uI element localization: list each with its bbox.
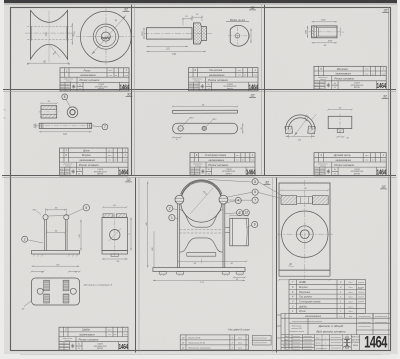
- svg-text:во: во: [244, 75, 246, 77]
- balloons 3 and 12: [237, 210, 243, 216]
- side view right dim: [130, 218, 132, 251]
- svg-text:обозначение: обозначение: [192, 78, 202, 80]
- svg-text:Ролик штанги: Ролик штанги: [79, 163, 99, 167]
- svg-text:н.др: н.др: [254, 74, 257, 77]
- leaders from assembly balloons to top view: [258, 182, 283, 197]
- svg-text:1464: 1464: [119, 168, 129, 176]
- U-bolt diagonal dim: [294, 116, 310, 137]
- svg-text:Ролик штанги: Ролик штанги: [208, 78, 228, 82]
- roller dia dimension (right of side view): [71, 23, 73, 45]
- svg-text:обозначение: обозначение: [318, 77, 328, 79]
- balloon 9: [252, 221, 258, 227]
- svg-text:н.др: н.др: [251, 159, 254, 162]
- svg-text:Ролик штанги: Ролик штанги: [334, 77, 354, 81]
- svg-text:Зав.ч: Зав.ч: [284, 336, 289, 338]
- svg-text:ВЕРФИ: ВЕРФИ: [227, 87, 234, 90]
- side view bottom dim: [102, 258, 128, 260]
- svg-text:9: 9: [254, 223, 256, 227]
- svg-text:см.ч: см.ч: [365, 155, 369, 157]
- top view plate: [32, 278, 80, 305]
- balloon 6: [252, 189, 258, 195]
- side view hole with axis: [110, 230, 120, 240]
- svg-text:Вид ролика штанги: Вид ролика штанги: [316, 329, 345, 333]
- svg-text:Втулка: Втулка: [299, 286, 308, 289]
- balloon 5 with leaders: [83, 205, 89, 211]
- svg-text:Сибирского завода: Сибирского завода: [289, 330, 304, 333]
- svg-text:См.л: См.л: [238, 337, 242, 339]
- svg-text:Ø10: Ø10: [189, 117, 195, 119]
- svg-text:32: 32: [251, 6, 255, 10]
- drum at right: [230, 218, 249, 246]
- right pin: [64, 215, 69, 220]
- centerlines front view: [76, 36, 136, 38]
- svg-text:наименование: наименование: [80, 75, 96, 77]
- bushing right small dim: [340, 28, 342, 36]
- balloon 4: [235, 197, 241, 203]
- svg-text:Шайба: Шайба: [299, 305, 307, 308]
- svg-text:м.ч: м.ч: [238, 75, 241, 77]
- svg-text:модель 205: модель 205: [291, 327, 302, 330]
- svg-text:ВЕРФИ: ВЕРФИ: [226, 172, 233, 175]
- plate holes: [37, 288, 43, 294]
- balloon 7: [102, 124, 108, 130]
- svg-text:7: 7: [104, 125, 106, 129]
- bottom scan strip: [0, 354, 400, 359]
- side view pin caps: [103, 214, 113, 218]
- svg-text:32: 32: [251, 94, 255, 98]
- svg-text:Детали и общий: Детали и общий: [318, 324, 344, 328]
- svg-text:наименование: наименование: [336, 74, 352, 76]
- main title block: description block: [307, 318, 309, 334]
- svg-text:Масленка: Масленка: [337, 68, 349, 71]
- bushing bottom dim: [312, 42, 337, 44]
- roller side view (spool profile): [31, 10, 68, 59]
- top view U-bolt clamp blocks (hatched): [281, 196, 297, 205]
- front view: base bar: [32, 251, 80, 255]
- pulley waist edges: [180, 210, 223, 228]
- svg-text:5: 5: [325, 337, 326, 339]
- rod (шток): [39, 123, 91, 128]
- svg-text:1464: 1464: [119, 343, 129, 351]
- overall width dim: [153, 279, 245, 281]
- vertical line before 1464 cell: [359, 335, 361, 351]
- U-bolt span dim: [286, 135, 315, 137]
- balloon 7: [252, 197, 258, 203]
- axle shaft body: [147, 28, 193, 39]
- svg-text:обозначение: обозначение: [63, 338, 73, 340]
- top view bottom dim 90: [279, 279, 330, 281]
- main title block: signature rows: [281, 337, 315, 339]
- svg-text:Ø12: Ø12: [212, 119, 218, 121]
- top dim 97: [281, 189, 328, 191]
- svg-text:наименование: наименование: [209, 160, 225, 162]
- balloon 2 (left): [167, 205, 173, 211]
- left eye nut: [175, 195, 184, 204]
- svg-text:Т.контр: Т.контр: [283, 342, 289, 344]
- side view body: [102, 218, 128, 251]
- right small dim: [234, 276, 245, 278]
- svg-text:Ролик штанги: Ролик штанги: [80, 78, 100, 82]
- left post: [177, 204, 179, 268]
- top view base plate: [279, 183, 330, 270]
- title block panel 7 (Шайба): [59, 327, 128, 350]
- svg-text:обозначение: обозначение: [63, 163, 73, 165]
- svg-text:32: 32: [382, 185, 386, 189]
- svg-text:См.л: См.л: [238, 342, 242, 344]
- pulley circle (top flange): [181, 181, 222, 222]
- title block panel 2 (Ось ролика): [189, 68, 259, 91]
- hole leader: [182, 119, 189, 127]
- bottom-middle parts table: [180, 335, 248, 350]
- svg-text:Ø48: Ø48: [305, 29, 308, 35]
- svg-text:Ø24: Ø24: [248, 33, 251, 39]
- svg-text:Шток: Шток: [83, 150, 90, 153]
- svg-text:(2шт): (2шт): [357, 288, 363, 290]
- axle left end dim: [143, 28, 145, 39]
- title block panel 4 (Шток/Втулка): [60, 148, 129, 176]
- drum top dim: [230, 214, 248, 216]
- svg-text:МИН-СССР: МИН-СССР: [352, 337, 360, 339]
- plate hole: [178, 126, 183, 131]
- svg-text:2: 2: [169, 206, 171, 210]
- svg-text:Н.контр: Н.контр: [283, 346, 289, 348]
- side view top dim: [103, 206, 127, 208]
- svg-text:ВЕРФИ: ВЕРФИ: [97, 173, 104, 176]
- svg-text:ВЕРФИ: ВЕРФИ: [354, 172, 361, 175]
- svg-text:Стопорная планка: Стопорная планка: [299, 301, 321, 304]
- plate top dim: [32, 265, 80, 267]
- svg-text:наименование: наименование: [79, 334, 95, 336]
- axle end view (D-shape): [230, 25, 249, 46]
- bushing left dim: [307, 26, 309, 38]
- svg-text:Видок по АА: Видок по АА: [230, 18, 245, 22]
- svg-text:1464: 1464: [246, 168, 256, 176]
- svg-text:Ролик штанги: Ролик штанги: [334, 163, 354, 167]
- balloon 1 (left): [169, 215, 175, 221]
- vertical divider bottom row col1/col2: [135, 178, 137, 353]
- small left leader: [37, 211, 42, 215]
- svg-text:Ось ролика: Ось ролика: [209, 69, 222, 72]
- svg-text:см.ч: см.ч: [108, 330, 112, 332]
- svg-text:5: 5: [85, 206, 87, 210]
- svg-text:м.ч: м.ч: [109, 75, 112, 77]
- svg-text:Ø30: Ø30: [327, 40, 333, 42]
- axle bottom dims: [147, 45, 189, 47]
- svg-text:6: 6: [254, 190, 256, 194]
- sleeve end view: [67, 107, 78, 118]
- rod bottom dim: [39, 131, 91, 133]
- svg-text:1464: 1464: [120, 84, 130, 92]
- svg-text:н.др: н.др: [124, 159, 127, 162]
- svg-text:Лист: Лист: [316, 337, 320, 339]
- svg-text:во: во: [372, 160, 374, 162]
- svg-text:м.ч: м.ч: [108, 160, 111, 162]
- svg-text:обозначение: обозначение: [193, 163, 203, 165]
- svg-text:Ролик: Ролик: [299, 310, 307, 313]
- title block panel 6 (Дуговая часть): [314, 153, 386, 176]
- svg-text:1464: 1464: [377, 82, 387, 90]
- svg-text:см.ч: см.ч: [365, 69, 369, 71]
- balloon 8 (right column): [252, 179, 258, 185]
- balloon 8: [62, 94, 68, 100]
- left pin: [43, 215, 48, 220]
- svg-text:во: во: [114, 334, 116, 336]
- top view centerlines: [304, 180, 306, 279]
- mid dim between pins: [46, 232, 65, 234]
- svg-text:C: C: [27, 63, 29, 66]
- top view pulley circle: [282, 211, 328, 257]
- vertical divider bottom row col2/col3: [272, 178, 274, 353]
- title block panel 5 (Стопорная планка): [190, 153, 255, 176]
- pins span dim: [46, 209, 67, 211]
- R60 radius label: [50, 45, 61, 58]
- plate slot mark: [202, 126, 206, 130]
- svg-text:На судне 6 штук: На судне 6 штук: [228, 327, 250, 331]
- svg-text:12: 12: [244, 211, 248, 215]
- lower span dims: [178, 260, 224, 262]
- threaded pin sections (hatched bands): [44, 280, 50, 291]
- svg-text:ВЕРФИ: ВЕРФИ: [97, 347, 104, 350]
- svg-text:наименование: наименование: [209, 75, 225, 77]
- svg-text:8: 8: [254, 180, 256, 184]
- svg-text:м.ч: м.ч: [108, 334, 111, 336]
- right eye nut: [219, 195, 228, 204]
- svg-text:32: 32: [265, 181, 269, 185]
- title block panel 1 (Ролик): [60, 68, 129, 91]
- svg-text:4: 4: [237, 199, 239, 203]
- svg-text:Для формы и структуры Б: Для формы и структуры Б: [83, 284, 113, 287]
- aux cells left of emblem: [330, 339, 343, 341]
- svg-text:1: 1: [171, 216, 173, 220]
- pulley diagonal label: [190, 188, 213, 214]
- svg-text:32: 32: [124, 8, 128, 12]
- svg-text:в.л: в.л: [339, 316, 341, 318]
- svg-text:см.ч: см.ч: [236, 155, 240, 157]
- drum connector: [225, 227, 230, 229]
- svg-text:7: 7: [254, 198, 256, 202]
- left margin cells of title block: [276, 314, 281, 316]
- svg-text:кол: кол: [349, 316, 352, 318]
- base feet: [159, 272, 166, 275]
- svg-text:Винты 8×8: Винты 8×8: [189, 337, 201, 340]
- U-bolt nuts: [285, 126, 293, 134]
- svg-text:Масленка: Масленка: [299, 291, 311, 294]
- left scan strip: [0, 0, 4, 359]
- svg-text:см.ч: см.ч: [108, 155, 112, 157]
- head small dims above: [182, 18, 184, 26]
- factory emblem (anchor): [343, 336, 351, 350]
- axle hidden lines: [179, 229, 223, 231]
- svg-text:Шайба: Шайба: [82, 329, 90, 332]
- horizontal panel divider row1/row2: [3, 89, 396, 91]
- svg-text:м.ч: м.ч: [366, 73, 369, 75]
- svg-text:32: 32: [127, 178, 131, 182]
- svg-text:2: 2: [24, 237, 26, 241]
- left height dims: [147, 182, 149, 268]
- svg-text:1: 1: [325, 343, 326, 345]
- svg-text:Утв.: Утв.: [285, 349, 289, 351]
- svg-text:Листов: Листов: [316, 343, 321, 345]
- svg-text:Ролик штанги: Ролик штанги: [208, 163, 228, 167]
- svg-text:32: 32: [127, 93, 131, 97]
- hub label smudge: [102, 37, 110, 40]
- svg-text:наименование: наименование: [336, 160, 352, 162]
- svg-text:во: во: [372, 73, 374, 75]
- svg-text:Прокладка 8×10: Прокладка 8×10: [189, 342, 206, 345]
- sheave lower flange: [180, 238, 223, 252]
- svg-text:Ось ролика: Ось ролика: [299, 296, 312, 299]
- bushing top dim: [312, 21, 337, 23]
- svg-text:Дуговая часть: Дуговая часть: [333, 154, 352, 157]
- svg-text:Маховичок: Маховичок: [292, 326, 302, 328]
- svg-text:Ролик штанги: Ролик штанги: [79, 338, 99, 342]
- svg-text:32: 32: [383, 95, 387, 99]
- svg-text:1464: 1464: [377, 168, 387, 176]
- svg-text:8: 8: [64, 95, 66, 99]
- svg-text:Ø30: Ø30: [142, 31, 144, 37]
- U-bolt side view: [328, 116, 352, 128]
- svg-text:во: во: [115, 75, 117, 77]
- svg-text:см.ч: см.ч: [109, 70, 113, 72]
- bottom-left diagonal dim: [24, 301, 31, 307]
- bushing wall section lines: [313, 26, 315, 38]
- svg-text:1464: 1464: [364, 332, 387, 351]
- balloon 2 with leader: [22, 236, 28, 242]
- svg-text:наименование: наименование: [305, 315, 322, 318]
- rod left dim: [35, 123, 37, 128]
- base plate: [153, 268, 245, 272]
- svg-text:СУДОСТРОИТ: СУДОСТРОИТ: [351, 339, 361, 341]
- svg-text:н.др: н.др: [382, 72, 385, 75]
- front view diagonal diameter dim: [92, 15, 127, 54]
- top scanner bar: [4, 0, 400, 3]
- svg-text:обозначение: обозначение: [318, 163, 328, 165]
- svg-text:обозначение: обозначение: [64, 79, 74, 81]
- sleeve section (втулка): [41, 106, 57, 118]
- axle head (sectioned): [194, 23, 207, 44]
- roller width dim: [27, 62, 70, 64]
- vertical divider top rows col2/col3: [261, 5, 263, 176]
- svg-text:Вязальная проволока: Вязальная проволока: [189, 348, 212, 350]
- right vertical dim front view: [80, 220, 82, 251]
- svg-text:м.ч: м.ч: [236, 160, 239, 162]
- svg-text:наименование: наименование: [80, 160, 96, 162]
- roller front view circle: [80, 11, 131, 62]
- svg-text:Втулка: Втулка: [82, 154, 91, 157]
- plate corner dims: [32, 271, 44, 273]
- title block panel 3 (Масленка): [314, 66, 386, 89]
- vertical divider top rows col1/col2: [131, 5, 133, 176]
- svg-text:Ø42: Ø42: [320, 19, 326, 22]
- svg-text:см.ч: см.ч: [238, 70, 242, 72]
- svg-text:Пров.: Пров.: [284, 339, 289, 341]
- main title block: header rows: [281, 312, 391, 314]
- svg-text:ВЕРФИ: ВЕРФИ: [354, 86, 361, 89]
- svg-text:н.др: н.др: [124, 333, 127, 336]
- svg-text:См.л: См.л: [238, 347, 242, 349]
- svg-text:ВЕРФИ: ВЕРФИ: [98, 88, 105, 91]
- roller bore hidden lines: [27, 26, 72, 28]
- U-bolt arc (double line): [286, 115, 315, 130]
- plate left small dim: [173, 136, 181, 138]
- stop plate top view: [173, 123, 238, 134]
- svg-text:см.ч: см.ч: [108, 150, 112, 152]
- svg-text:32: 32: [384, 9, 388, 13]
- right post: [222, 204, 224, 268]
- svg-text:н.др: н.др: [382, 159, 385, 162]
- svg-text:м.ч: м.ч: [366, 160, 369, 162]
- svg-text:Стопорная планка: Стопорная планка: [205, 154, 227, 157]
- horizontal panel divider row2/row3: [2, 175, 396, 177]
- svg-text:н.др: н.др: [125, 74, 128, 77]
- svg-text:Шток: Шток: [299, 281, 306, 284]
- main title block: sheet cells: [329, 335, 331, 351]
- stop plate edge view (thin bar): [173, 110, 238, 113]
- svg-text:1464: 1464: [249, 83, 259, 91]
- plate right dim: [242, 123, 244, 134]
- side view base: [102, 251, 128, 255]
- svg-text:во: во: [242, 160, 244, 162]
- bushing outer body: [312, 26, 337, 38]
- main title block: parts list: [289, 280, 366, 314]
- svg-text:Ø14: Ø14: [33, 123, 36, 129]
- svg-text:Ролик: Ролик: [84, 69, 92, 72]
- svg-text:3: 3: [239, 211, 241, 215]
- svg-text:C: C: [68, 63, 70, 66]
- U-bolt arc over pulley: [181, 180, 222, 194]
- svg-text:во: во: [114, 160, 116, 162]
